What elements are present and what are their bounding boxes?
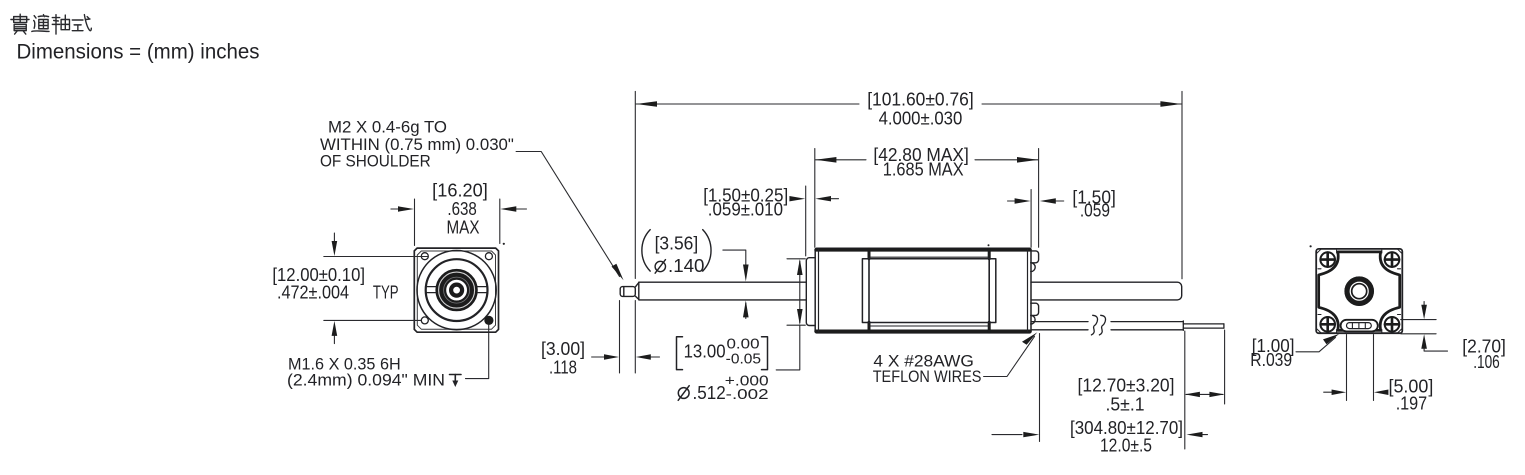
轴 <box>52 15 59 34</box>
dim [1.50±0.25] arrows <box>789 196 805 201</box>
front inner circle <box>426 259 488 321</box>
通 <box>32 16 49 32</box>
front boss <box>806 258 815 326</box>
front mounting holes <box>421 253 492 324</box>
svg-text:12.0±.5: 12.0±.5 <box>1100 436 1152 456</box>
svg-text:R.039: R.039 <box>1250 350 1292 370</box>
rear bump arc bottom <box>1031 315 1035 324</box>
rear square corner chamfers <box>1317 249 1403 333</box>
leader M2 thread <box>516 152 619 277</box>
rear plate inner edge <box>1027 250 1029 332</box>
depth symbol <box>450 375 462 388</box>
front plate inner edge <box>818 250 820 332</box>
dim [3.00] arrows <box>604 354 619 359</box>
dim [1.50] right extension line <box>1030 190 1032 248</box>
svg-text:-0.05: -0.05 <box>726 351 761 368</box>
stray dot <box>503 243 505 245</box>
dim [101.60] line <box>636 103 859 105</box>
dim [12.00] arrows <box>332 241 338 256</box>
leader M1.6 holes <box>466 325 489 379</box>
dim dia 3.56 leader elbow <box>723 250 746 266</box>
title chinese 贯通轴式 (hand drawn strokes) <box>11 14 91 34</box>
dim [12.00] extension lines <box>324 256 428 258</box>
svg-text:Dimensions = (mm) inches: Dimensions = (mm) inches <box>17 41 260 64</box>
leader M2 arrowhead <box>612 264 624 281</box>
svg-text:[16.20]: [16.20] <box>432 181 488 201</box>
dia 3.56 arrows <box>743 265 749 282</box>
dim [101.60] arrows <box>636 101 657 107</box>
dim [304.80] arrows <box>1023 432 1039 437</box>
front bearing dark ring <box>441 274 473 306</box>
dim [42.80] line <box>815 159 866 161</box>
dim [5.00] arrows <box>1332 390 1347 396</box>
front hub ring <box>451 285 462 296</box>
dim 13.00 arrows <box>797 259 803 275</box>
rear wire slot inner <box>1347 323 1372 329</box>
stray dot rear <box>1310 245 1312 247</box>
svg-text:.5±.1: .5±.1 <box>1106 394 1145 414</box>
shaft right <box>1031 282 1182 300</box>
svg-text:.118: .118 <box>549 358 577 378</box>
front filled hole bottom right <box>484 316 493 325</box>
svg-text:13.00: 13.00 <box>684 342 726 362</box>
svg-text:.140: .140 <box>668 256 705 276</box>
dim [16.20] arrows <box>398 206 414 211</box>
body thick top edge <box>816 248 1030 251</box>
dim 13.00 vertical line and ticks <box>787 258 805 260</box>
svg-text:MAX: MAX <box>447 218 480 238</box>
shaft left <box>620 282 806 300</box>
stray dot body <box>988 244 990 246</box>
front pilot circle <box>417 251 496 330</box>
dim [1.50±0.25] extension line <box>805 186 807 256</box>
dim [16.20] extension lines <box>414 199 416 246</box>
dim [5.00] extension lines <box>1346 335 1348 401</box>
svg-text:.106: .106 <box>1473 352 1500 372</box>
can right vertical <box>988 249 990 332</box>
leader teflon wires <box>984 337 1035 377</box>
label sleeve rectangle <box>862 259 995 323</box>
front view square body <box>414 248 498 332</box>
front slot lines left <box>426 287 436 293</box>
dim [2.70] arrows <box>1421 305 1427 320</box>
svg-text:[3.56]: [3.56] <box>655 234 699 254</box>
dim [2.70] extension lines <box>1401 319 1436 321</box>
svg-text:.059: .059 <box>1080 201 1110 221</box>
motor body outline <box>815 248 1031 333</box>
dim [3.00] extension lines <box>619 301 621 374</box>
leader R.039 arrowhead <box>1323 334 1339 344</box>
dim [304.80] line <box>992 434 1022 436</box>
rear screws <box>1320 252 1399 331</box>
dim text (dia 3.56) <box>642 230 650 272</box>
rear screw head bottom <box>1031 303 1039 315</box>
dim [42.80] extension lines <box>814 149 816 248</box>
svg-text:.197: .197 <box>1396 394 1428 414</box>
wire break symbol <box>1091 315 1105 335</box>
arrowheads <box>332 101 1427 437</box>
rear screw crosses <box>1321 253 1399 332</box>
svg-text:4.000±.030: 4.000±.030 <box>879 109 963 129</box>
svg-text:[12.70±3.20]: [12.70±3.20] <box>1078 376 1175 396</box>
rear corner pocket lines <box>1318 250 1401 333</box>
dim [12.70] extension lines <box>1039 334 1041 442</box>
dim [1.50] arrows <box>1015 198 1031 203</box>
svg-text:1.685 MAX: 1.685 MAX <box>883 160 964 180</box>
svg-text:-.002: -.002 <box>726 386 769 403</box>
leader teflon arrowhead <box>1022 332 1037 345</box>
svg-text:(2.4mm) 0.094" MIN: (2.4mm) 0.094" MIN <box>287 371 445 390</box>
body thick bottom edge <box>816 330 1030 333</box>
can left vertical <box>868 249 870 332</box>
rear center boss rings <box>1345 277 1373 305</box>
dim text 13.00 tolerance <box>677 337 683 370</box>
dim [12.70] arrows <box>1185 392 1200 397</box>
rear wire slot <box>1341 320 1378 332</box>
rear square body <box>1316 249 1402 333</box>
svg-text:OF SHOULDER: OF SHOULDER <box>320 152 431 171</box>
svg-text:[101.60±0.76]: [101.60±0.76] <box>867 90 974 110</box>
rear bump arc top <box>1031 263 1035 272</box>
rear plate outline <box>1319 252 1400 331</box>
式 <box>72 19 90 31</box>
front slot lines right <box>478 287 488 293</box>
leader R.039 <box>1296 338 1336 352</box>
wire bundle <box>1032 321 1224 331</box>
can recess lines <box>869 256 989 258</box>
贯 <box>11 14 29 22</box>
svg-text:.472±.004: .472±.004 <box>277 282 349 302</box>
svg-text:TEFLON WIRES: TEFLON WIRES <box>873 367 982 386</box>
svg-text:TYP: TYP <box>373 282 399 302</box>
dim [101.60] extension lines <box>634 91 636 278</box>
svg-text:.638: .638 <box>447 199 476 219</box>
svg-text:.512: .512 <box>693 383 726 403</box>
rear screw head top <box>1031 251 1039 263</box>
svg-text:.059±.010: .059±.010 <box>708 200 783 220</box>
svg-text:M2 X 0.4-6g TO: M2 X 0.4-6g TO <box>328 118 447 137</box>
dim [42.80] arrows <box>815 157 836 163</box>
svg-text:[3.00]: [3.00] <box>541 339 585 359</box>
